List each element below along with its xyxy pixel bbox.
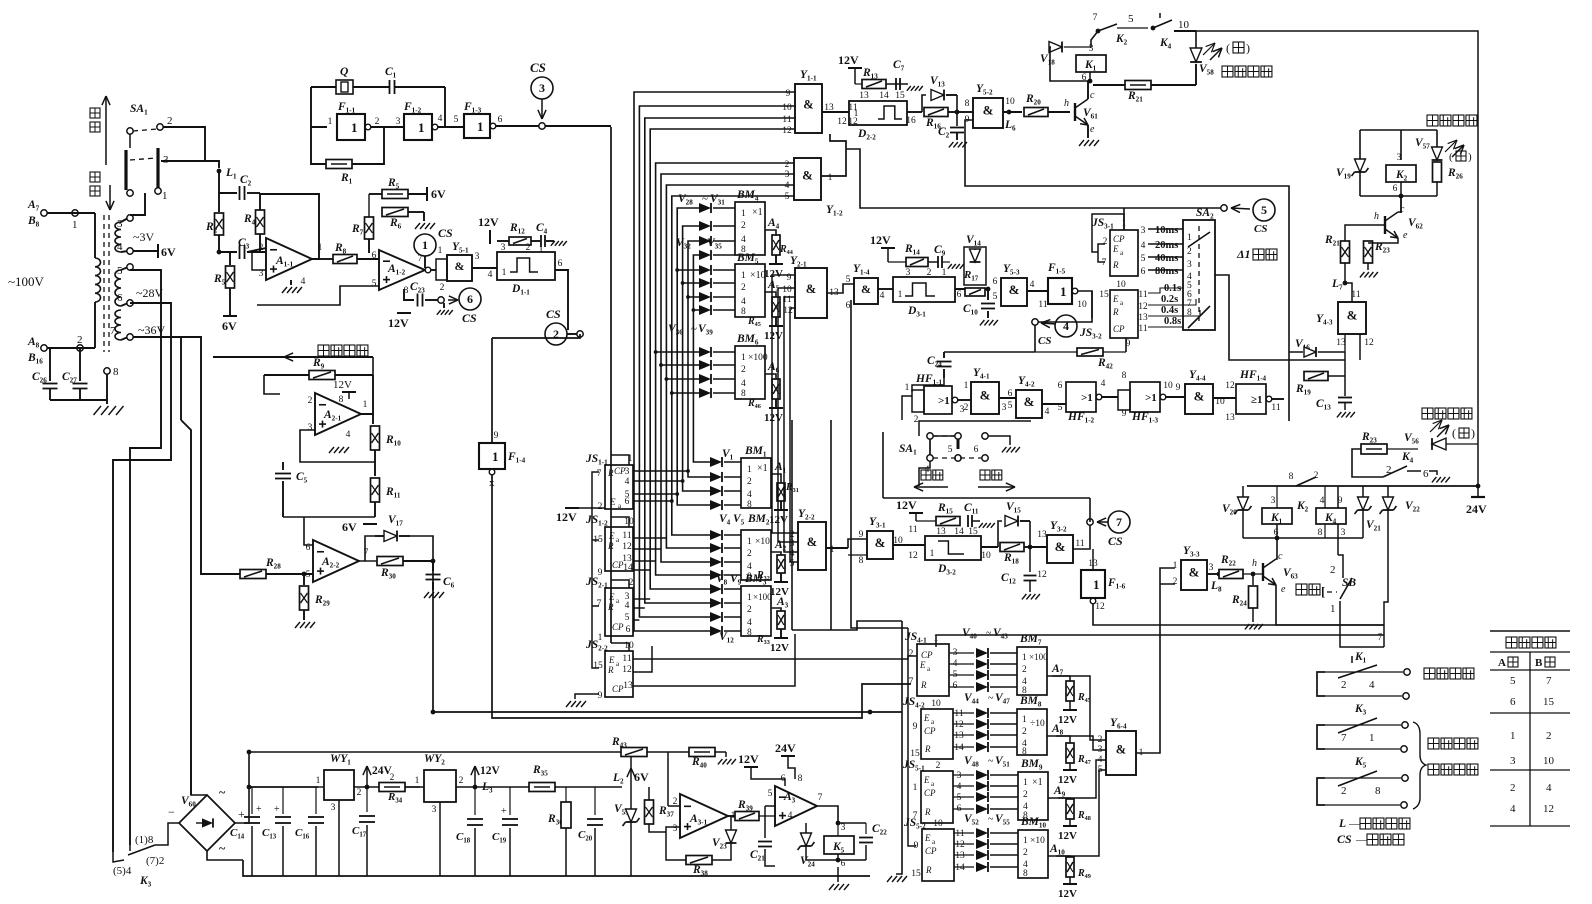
- wire Y4-3 pins down: [1344, 334, 1346, 352]
- svg-text:4: 4: [785, 181, 790, 191]
- svg-text:CP: CP: [925, 846, 937, 856]
- resistor R29: [302, 572, 307, 577]
- resistor R1 feedback: [311, 127, 327, 164]
- or gate HF1-4: [1236, 384, 1266, 414]
- svg-text:+: +: [238, 807, 245, 821]
- svg-text:2: 2: [1187, 247, 1192, 257]
- svg-text:12V: 12V: [896, 498, 917, 512]
- svg-text:14: 14: [955, 863, 965, 873]
- svg-text:8: 8: [113, 366, 119, 378]
- svg-text:&: &: [1024, 394, 1035, 409]
- ground K4 contact: [1432, 477, 1437, 482]
- wires JS3-1 to SA2: [1148, 228, 1183, 230]
- 12V A2-1: [342, 391, 356, 393]
- wire K5 down ground: [837, 860, 839, 876]
- svg-text:1: 1: [747, 465, 752, 475]
- and gate Y5-2: [973, 98, 1003, 128]
- svg-text:CS: CS: [462, 311, 477, 325]
- junction R18 V15: [1029, 521, 1031, 547]
- svg-text:8: 8: [1023, 869, 1028, 879]
- svg-text:6: 6: [846, 301, 851, 311]
- wire Y4-2 to HF1-2: [1042, 403, 1066, 405]
- svg-text:[: [: [1321, 584, 1325, 599]
- svg-text:≥1: ≥1: [1251, 394, 1263, 406]
- ground K5: [829, 884, 834, 890]
- wire contact to LED V58: [1174, 30, 1196, 32]
- wire run-test row bottom: [883, 497, 1090, 499]
- svg-text:~: ~: [691, 323, 697, 335]
- svg-text:4: 4: [346, 430, 351, 440]
- 12V bar BM6: [769, 407, 783, 409]
- svg-text:E: E: [923, 775, 930, 785]
- svg-text:1: 1: [351, 120, 358, 135]
- svg-text:4: 4: [1141, 241, 1146, 251]
- wire Y6-4 out up: [1136, 568, 1175, 753]
- svg-text:15: 15: [911, 869, 921, 879]
- test point CS4: [1032, 319, 1038, 325]
- 12V bar BM1: [774, 509, 788, 511]
- svg-text:3: 3: [163, 154, 169, 166]
- svg-text:2: 2: [598, 502, 603, 512]
- svg-text:9: 9: [494, 431, 499, 441]
- wire SA1-4 loop: [919, 421, 1031, 436]
- resistor R7: [365, 217, 374, 239]
- decoder BM10: [1018, 830, 1048, 878]
- svg-text:1: 1: [363, 400, 368, 410]
- ground A2-1: [329, 447, 334, 453]
- svg-text:e: e: [1281, 584, 1286, 595]
- svg-text:3: 3: [308, 423, 313, 433]
- svg-text:13: 13: [1225, 413, 1235, 423]
- svg-text:1: 1: [741, 209, 746, 219]
- svg-text:6: 6: [306, 543, 311, 553]
- wire L7 to Y4-3: [1345, 283, 1352, 302]
- svg-text:9: 9: [598, 568, 603, 578]
- svg-text:1: 1: [913, 783, 918, 793]
- relay coil K4b: [1316, 508, 1346, 524]
- svg-text:×100: ×100: [748, 353, 768, 363]
- label central signal: [1424, 668, 1435, 679]
- svg-text:×10: ×10: [1030, 836, 1045, 846]
- relay coil K1b: [1262, 508, 1292, 524]
- and gate Y4-3: [1338, 302, 1366, 334]
- svg-text:4: 4: [301, 277, 306, 287]
- and gate Y5-1: [436, 259, 447, 280]
- svg-text:8: 8: [798, 774, 803, 784]
- svg-text:8: 8: [1289, 472, 1294, 482]
- svg-text:12: 12: [782, 126, 792, 136]
- svg-text:8: 8: [965, 99, 970, 109]
- and gate Y4-2: [1016, 390, 1042, 418]
- svg-text:2: 2: [1173, 577, 1178, 587]
- svg-text:R: R: [1112, 307, 1119, 317]
- svg-text:4: 4: [1030, 280, 1035, 290]
- svg-text:10: 10: [782, 103, 792, 113]
- svg-text:2: 2: [459, 776, 464, 786]
- svg-text:12: 12: [622, 665, 632, 675]
- wire V56 to right bus: [1446, 443, 1478, 445]
- 12V D3-1: [881, 247, 895, 249]
- svg-text:2: 2: [1341, 679, 1347, 691]
- svg-text:15: 15: [1099, 290, 1109, 300]
- svg-text:16: 16: [906, 116, 916, 126]
- left rail JS reset: [592, 472, 599, 668]
- ground JS area: [575, 694, 599, 699]
- svg-text:2: 2: [936, 761, 941, 771]
- svg-text:SB: SB: [1342, 577, 1356, 589]
- transistor V63: [1262, 563, 1264, 581]
- svg-text:5: 5: [1261, 203, 1267, 217]
- ground C9: [948, 264, 952, 269]
- svg-text:1: 1: [1510, 730, 1516, 742]
- A1-1 feedback loop: [260, 194, 319, 259]
- and gate Y1-4: [854, 278, 878, 304]
- label under-frequency outputs: [1428, 738, 1439, 749]
- svg-text:2: 2: [785, 160, 790, 170]
- svg-text:E: E: [608, 592, 615, 602]
- wire V17 to junction: [410, 536, 433, 561]
- svg-text:1: 1: [1369, 732, 1375, 744]
- wire bridge top from transformer: [191, 794, 207, 796]
- svg-text:13: 13: [1037, 530, 1047, 540]
- svg-text:13: 13: [623, 681, 633, 691]
- svg-text:E: E: [608, 531, 615, 541]
- svg-text:6: 6: [558, 259, 563, 269]
- svg-text:CS: CS: [1254, 223, 1267, 235]
- 12V output arrow: [473, 785, 478, 790]
- JS1-1 output stubs: [633, 470, 688, 472]
- label unlock: [1427, 115, 1438, 126]
- op-amp A1-1: [266, 238, 312, 280]
- svg-text:3: 3: [331, 803, 336, 813]
- wire 12V to JS1-1: [564, 503, 566, 508]
- wire SA2 common down: [1229, 347, 1345, 360]
- svg-text:~: ~: [700, 237, 706, 249]
- wire JS3 left rail: [1098, 244, 1105, 262]
- wire HF1-3 to Y4-4: [1165, 396, 1185, 398]
- svg-text:E: E: [608, 655, 615, 665]
- svg-text:6V: 6V: [222, 319, 237, 333]
- svg-text:6: 6: [974, 445, 979, 455]
- resistor R48: [1048, 798, 1070, 800]
- svg-text:10: 10: [1178, 19, 1190, 31]
- svg-text:80ms: 80ms: [1155, 266, 1178, 277]
- svg-text:6: 6: [1393, 184, 1398, 194]
- svg-text:E: E: [919, 660, 926, 670]
- wire A8 to transformer primary: [47, 347, 95, 349]
- svg-text:&: &: [1009, 282, 1020, 297]
- svg-text:12V: 12V: [478, 215, 499, 229]
- svg-text:(5)4: (5)4: [113, 865, 132, 877]
- svg-text:R: R: [1112, 260, 1119, 270]
- svg-text:+: +: [256, 804, 262, 815]
- resistor R2: [215, 213, 224, 235]
- svg-text:×1: ×1: [757, 463, 768, 474]
- svg-text:4: 4: [957, 782, 962, 792]
- svg-text:12V: 12V: [838, 53, 859, 67]
- svg-text:>1: >1: [938, 395, 950, 407]
- svg-text:4: 4: [1510, 803, 1516, 815]
- SA1 lower links: [929, 439, 931, 455]
- relay coil K5: [824, 836, 854, 854]
- wire HF1-4 out: [1271, 398, 1284, 400]
- resistor R42: [1077, 348, 1103, 356]
- svg-text:1: 1: [854, 109, 859, 119]
- svg-text:2: 2: [1330, 564, 1336, 576]
- wire D3-1 out: [955, 288, 988, 290]
- svg-text:11: 11: [1351, 290, 1360, 300]
- svg-text:CP: CP: [924, 788, 936, 798]
- 12V bar BM4: [769, 263, 783, 265]
- svg-text:5: 5: [948, 445, 953, 455]
- svg-text:2: 2: [1341, 785, 1347, 797]
- diodes BM1 input: [708, 461, 709, 463]
- wire terminal8 to ground: [106, 374, 108, 404]
- svg-text:h: h: [1252, 558, 1257, 569]
- counter JS3-2: [1110, 290, 1138, 338]
- svg-text:~: ~: [988, 756, 994, 767]
- 24V label right: [1471, 496, 1485, 498]
- LED V57 red: [1432, 147, 1443, 160]
- svg-text:>1: >1: [1145, 392, 1157, 404]
- svg-text:2: 2: [741, 221, 746, 231]
- svg-text:1: 1: [930, 549, 935, 559]
- decoder BM2: [741, 530, 771, 580]
- svg-text:1: 1: [741, 353, 746, 363]
- svg-text:11: 11: [622, 531, 631, 541]
- ground R24: [1245, 624, 1250, 629]
- svg-text:9: 9: [1122, 409, 1127, 419]
- wire A2-1 out: [361, 375, 373, 414]
- 12V 24V bars A3-2: [744, 766, 758, 768]
- svg-text:E: E: [924, 833, 931, 843]
- wires JS3-2 to SA2 stepped: [1148, 288, 1183, 293]
- arrow up test: [105, 96, 107, 165]
- svg-text:÷10: ÷10: [1030, 719, 1045, 729]
- svg-text:2: 2: [1314, 471, 1319, 481]
- svg-text:12V: 12V: [738, 752, 759, 766]
- svg-text:×100: ×100: [753, 592, 772, 602]
- 12V bar JS1: [565, 507, 579, 509]
- wire Y2-1 out to Y1-4: [827, 284, 854, 293]
- svg-text:13: 13: [955, 851, 965, 861]
- and gate Y3-1: [867, 531, 893, 559]
- svg-text:2: 2: [553, 327, 559, 341]
- resistor R33: [771, 608, 781, 612]
- 12V bar BM3: [774, 637, 788, 639]
- transformer primary winding: [94, 213, 96, 258]
- wire Y1-2 to JS3-1 clock: [846, 149, 1221, 208]
- SA2 wiper: [1188, 232, 1210, 247]
- wire SB bottom: [1340, 601, 1384, 647]
- svg-text:4: 4: [788, 811, 793, 821]
- svg-text:13: 13: [859, 91, 869, 101]
- label test with arrow: [980, 470, 990, 480]
- and gate Y5-3: [1001, 278, 1027, 306]
- svg-text:15: 15: [593, 661, 603, 671]
- svg-text:6: 6: [626, 625, 631, 635]
- svg-text:12V: 12V: [388, 316, 409, 330]
- decoder BM7: [1017, 647, 1047, 695]
- and gate Y4-1: [971, 382, 999, 414]
- wire V63 emitter down: [1276, 585, 1384, 625]
- junction V13/R16: [956, 95, 958, 126]
- svg-text:&: &: [1194, 389, 1205, 404]
- resistor R6: [382, 208, 408, 217]
- resistor R38: [686, 856, 712, 865]
- svg-text:7: 7: [1378, 633, 1383, 643]
- and gate Y2-2: [798, 522, 826, 570]
- wire tap4 to 6V: [133, 250, 158, 252]
- svg-text:2: 2: [1022, 665, 1027, 675]
- decoder BM4: [735, 202, 765, 255]
- svg-text:5: 5: [768, 789, 773, 799]
- svg-text:7: 7: [597, 599, 602, 609]
- svg-text:~: ~: [219, 785, 226, 799]
- left vertical rail from tap6: [113, 303, 171, 852]
- svg-text:3: 3: [1141, 226, 1146, 236]
- svg-text:2: 2: [375, 117, 380, 127]
- wire Y2-2 out: [826, 547, 848, 549]
- svg-text:9: 9: [786, 89, 791, 99]
- svg-text:11: 11: [1038, 300, 1047, 310]
- svg-text:2: 2: [77, 334, 83, 346]
- monostable D3-2: [925, 536, 981, 560]
- relay coil K2: [1386, 165, 1416, 182]
- terminal 8 center tap: [104, 368, 110, 374]
- decoder BM1: [741, 458, 771, 508]
- decoder BM5: [735, 264, 765, 317]
- 12V bar BM10: [1063, 883, 1077, 885]
- svg-text:CP: CP: [921, 650, 933, 660]
- test point CS5: [1221, 205, 1227, 211]
- ground C7: [907, 86, 911, 91]
- label test signal: [318, 345, 329, 356]
- svg-text:>1: >1: [1081, 392, 1093, 404]
- svg-text:1: 1: [328, 117, 333, 127]
- svg-text:8: 8: [747, 500, 752, 510]
- op-amp A2-1: [315, 393, 361, 435]
- svg-text:(: (: [1226, 41, 1230, 55]
- svg-text:R: R: [924, 744, 931, 754]
- wire A3-2 out: [817, 806, 838, 823]
- svg-text:5: 5: [957, 793, 962, 803]
- svg-text:): ): [1471, 426, 1475, 440]
- svg-text:1: 1: [828, 173, 833, 183]
- wire F1-6 down to bus: [1093, 604, 1384, 625]
- unlock block top wire: [1360, 129, 1437, 131]
- svg-text:7: 7: [818, 793, 823, 803]
- wire Y4-4 to HF1-4: [1213, 397, 1236, 399]
- svg-text:24V: 24V: [1466, 502, 1487, 516]
- svg-text:&: &: [875, 535, 886, 550]
- svg-text:B: B: [1535, 657, 1543, 669]
- 12V bar BM9: [1063, 825, 1077, 827]
- svg-text:(: (: [1449, 151, 1453, 163]
- svg-text:CS: CS: [438, 226, 453, 240]
- decoder BM9: [1018, 772, 1048, 820]
- svg-text:2: 2: [357, 788, 362, 798]
- svg-text:8: 8: [1318, 528, 1323, 538]
- 12V bar BM8: [1063, 769, 1077, 771]
- SA1 contacts: [127, 128, 133, 134]
- wire V63 collector to bus: [1276, 538, 1277, 559]
- svg-text:12: 12: [1364, 338, 1374, 348]
- and gate Y2-1: [795, 268, 827, 318]
- and gate Y6-4: [1106, 731, 1136, 775]
- svg-text:&: &: [1347, 307, 1358, 322]
- svg-text:3: 3: [1002, 403, 1007, 413]
- svg-text:CS: CS: [1337, 832, 1352, 846]
- svg-text:10: 10: [1116, 280, 1126, 290]
- svg-text:2: 2: [390, 773, 395, 783]
- svg-text:8: 8: [339, 395, 344, 405]
- svg-text:e: e: [1090, 124, 1095, 135]
- svg-text:CP: CP: [1113, 324, 1125, 334]
- svg-text:14: 14: [879, 91, 889, 101]
- svg-text:2: 2: [747, 477, 752, 487]
- svg-text:8: 8: [1122, 371, 1127, 381]
- svg-text:R: R: [920, 680, 927, 690]
- brace outputs: [1413, 722, 1426, 809]
- wire Y5-2 pin9 feedback: [965, 120, 1289, 421]
- unlock block bottom junction: [1360, 195, 1437, 197]
- decoder BM8: [1017, 709, 1047, 755]
- oscillator loop wire: [311, 87, 327, 127]
- wire A1-1 plus from R5: [252, 252, 266, 270]
- svg-text:6: 6: [1510, 696, 1516, 708]
- wire SA1-1 down to tap3: [130, 193, 145, 215]
- and gate Y3-2: [1047, 535, 1073, 563]
- svg-text:3: 3: [957, 771, 962, 781]
- svg-text:2: 2: [1386, 464, 1392, 476]
- svg-text:11: 11: [622, 654, 631, 664]
- svg-text:4: 4: [1369, 679, 1375, 691]
- svg-text:20ms: 20ms: [1155, 240, 1178, 251]
- wire A3-1 inputs: [666, 827, 680, 832]
- or gate HF1-2: [1066, 382, 1096, 412]
- svg-text:CS: CS: [546, 307, 561, 321]
- svg-text:12V: 12V: [1058, 830, 1077, 842]
- svg-text:3: 3: [1209, 563, 1214, 573]
- wire A3-2 out up to JS area: [838, 760, 862, 806]
- ground R6: [423, 212, 425, 221]
- svg-text:7: 7: [1341, 732, 1347, 744]
- 12V D1-1: [489, 230, 491, 244]
- diodes V52-V55: [954, 832, 974, 834]
- svg-text:c: c: [1278, 551, 1283, 562]
- diodes V48-V51: [953, 774, 974, 776]
- svg-text:10: 10: [931, 699, 941, 709]
- wire Y1-2 out: [821, 134, 846, 176]
- decoder BM6: [735, 346, 765, 399]
- wire F1-4 down: [492, 475, 911, 718]
- or gate HF1-1: [912, 390, 924, 412]
- wire Y3-3 out: [1207, 573, 1219, 575]
- svg-text:5: 5: [306, 570, 311, 580]
- transformer secondary winding 3V: [115, 222, 121, 252]
- diodes V32-V35: [697, 269, 698, 271]
- wire bridge bottom: [207, 851, 243, 860]
- bottom bus: [243, 860, 870, 876]
- bottom junction K5: [806, 859, 866, 861]
- resistor R46: [765, 374, 776, 380]
- svg-text:R: R: [925, 865, 932, 875]
- test point CS2: [545, 323, 567, 345]
- svg-text:4: 4: [880, 291, 885, 301]
- ground C2b: [949, 142, 954, 147]
- svg-text:11: 11: [1138, 324, 1147, 334]
